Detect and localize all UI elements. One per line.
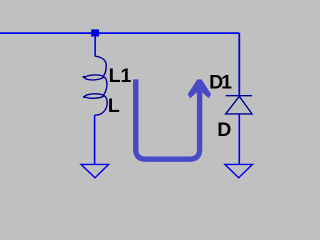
- ground right: [225, 164, 253, 177]
- svg-text:L1: L1: [109, 65, 132, 87]
- inductor loop dot upper: [82, 75, 85, 78]
- svg-text:D1: D1: [209, 71, 232, 93]
- wire diode to ground: [238, 114, 240, 164]
- diode D1: [226, 96, 252, 114]
- svg-text:L: L: [108, 95, 120, 117]
- wire junction to inductor: [94, 36, 96, 57]
- wire right vertical to diode: [238, 33, 240, 96]
- current loop arrowhead: [188, 79, 212, 98]
- wire top horizontal: [0, 32, 239, 34]
- inductor L1: [85, 56, 107, 115]
- svg-text:D: D: [217, 119, 231, 141]
- node junction: [91, 29, 99, 36]
- wire inductor to ground: [94, 115, 96, 164]
- current loop arrow body: [136, 79, 200, 159]
- ground left: [81, 164, 109, 177]
- inductor loop dot lower: [83, 95, 86, 98]
